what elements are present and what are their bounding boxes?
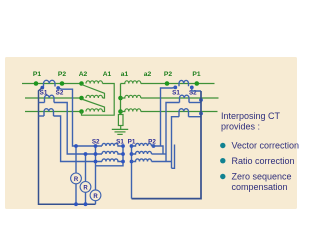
svg-text:P1: P1 [192,71,200,78]
svg-text:A1: A1 [103,71,112,78]
svg-text:R: R [74,177,79,183]
svg-text:P2: P2 [164,71,172,78]
node relay R2 tap [84,152,88,156]
winding: interposing CT primary row1 [132,143,152,146]
node P1 (right, green junction) [195,81,200,86]
wire: T6 S1 drop [172,117,180,169]
bullet 3 marker [220,174,225,179]
wire: phase A line right (green) [141,83,215,85]
node P1 terminal row2 [130,152,134,156]
node relay R2 return [84,202,88,206]
wire: resistor to ground [120,126,122,130]
svg-text:Ratio correction: Ratio correction [232,156,295,166]
node S1 terminal row1 [121,144,125,148]
node T6 S2 bus junction [199,112,203,116]
wire: S1 bus left vertical [39,88,96,205]
svg-text:P2: P2 [58,71,66,78]
CT T1 phase A (left) secondary winding [44,80,56,86]
CT T5 phase B (right) secondary winding [180,95,190,102]
node star phase B [118,96,123,101]
wire: delta diagonal B-C [82,99,105,112]
winding: transformer primary delta coil phase A [86,81,102,84]
wire: delta diagonal A-B [82,85,105,99]
wire: primary row1 right [152,146,164,154]
CT T4 phase A (right) secondary winding [179,80,189,86]
relay R3 [90,190,101,204]
node T5 S2 bus junction [199,98,203,102]
wire: delta closure bracket [82,84,115,116]
node P2 terminal row1 [152,144,156,148]
node S1 terminal row2 [121,152,125,156]
winding: interposing CT primary row3 [132,159,152,162]
wire: phase B line left (green) [25,97,82,99]
winding: interposing CT secondary row3 [102,159,123,162]
wire: phase C line left (green) [25,111,82,113]
node delta A2 phase C [79,109,84,114]
wire: star point vertical [120,84,122,115]
node P1 (left, green junction) [34,81,39,86]
node S2 terminal row2 [94,152,98,156]
svg-text:a1: a1 [121,71,129,78]
wire: S2 terminal bus [95,146,97,190]
CT T6 phase C (right) secondary winding [179,109,189,117]
wire: T6 S2 jog to bus [189,116,202,118]
winding: transformer secondary star coil phase C [121,109,141,112]
node relay R1 tap [74,144,78,148]
svg-text:compensation: compensation [232,182,288,192]
wire: staircase tail [172,145,175,169]
node S2 terminal row3 [94,160,98,164]
CT T2 phase B (left) secondary winding [45,95,55,102]
node P1 terminal row3 [130,160,134,164]
node relay R1 return [74,202,78,206]
node S2 (left CT phase A) [56,86,60,90]
wire: T4 S2 to S2 bus [192,87,201,91]
node S2 terminal row1 [94,144,98,148]
winding: interposing CT secondary row2 [102,151,123,154]
winding: transformer primary delta coil phase B [86,95,102,98]
wire: S1 common vertical [96,146,124,166]
wire: phase C line right (green) [141,111,218,113]
node S1 (left CT phase A) [40,86,44,90]
winding: interposing CT primary row2 [132,151,152,154]
node delta A2 phase A [79,81,84,86]
wire: phase B line right (green) [141,97,219,99]
wire: interposing primary star vertical [131,146,133,199]
svg-text:provides :: provides : [221,121,260,131]
svg-text:R: R [83,186,88,192]
relay R1 [71,146,82,204]
svg-text:P1: P1 [33,71,41,78]
wire: T3 S1 jog to bus [39,115,45,117]
node delta A2 phase B [79,96,84,101]
wire: T3 S2 drop to row3 [54,116,103,162]
wire: T1 S2 drop to row1 [58,88,102,146]
wire: S2 bus right vertical [132,91,202,199]
resistor: earthing resistor [118,115,123,126]
node S1 terminal row3 [121,160,125,164]
wire: T2 S2 drop to row2 [54,103,102,155]
ground [112,129,128,134]
node P2 (left, green junction) [60,81,65,86]
winding: transformer secondary star coil phase B [121,95,141,98]
svg-text:R: R [93,194,98,200]
wire: primary row2 right [152,153,167,155]
node P1 terminal row1 [130,144,134,148]
svg-text:A2: A2 [79,71,88,78]
svg-text:Interposing CT: Interposing CT [221,111,281,121]
node S1 (right CT phase A) [173,86,177,90]
svg-text:S1: S1 [172,89,180,96]
wire: T5 S1 drop [166,103,180,162]
svg-text:S2: S2 [56,89,64,96]
bullet 2 marker [220,158,225,163]
wire: T2 S1 jog to bus [39,102,45,104]
winding: transformer secondary star coil phase A [121,81,141,84]
node star phase C [118,109,123,114]
CT T3 phase C (left) secondary winding [44,109,54,116]
wire: T4 S1 to interposing primary row1 [161,87,176,146]
wire: primary row3 right [152,161,172,163]
wire: phase A line left (green) [22,83,82,85]
wire: T5 S2 jog to bus [189,102,201,104]
svg-text:Vector correction: Vector correction [232,141,300,151]
node P2 (right, green junction) [165,81,170,86]
svg-text:P2: P2 [148,138,156,145]
winding: transformer primary delta coil phase C [86,109,102,112]
node S2 (right CT phase A) [190,86,194,90]
bullet 1 marker [220,143,225,148]
svg-text:a2: a2 [144,71,152,78]
svg-text:Zero sequence: Zero sequence [232,172,292,182]
relay R2 [80,154,91,204]
winding: interposing CT secondary row1 [102,143,123,146]
